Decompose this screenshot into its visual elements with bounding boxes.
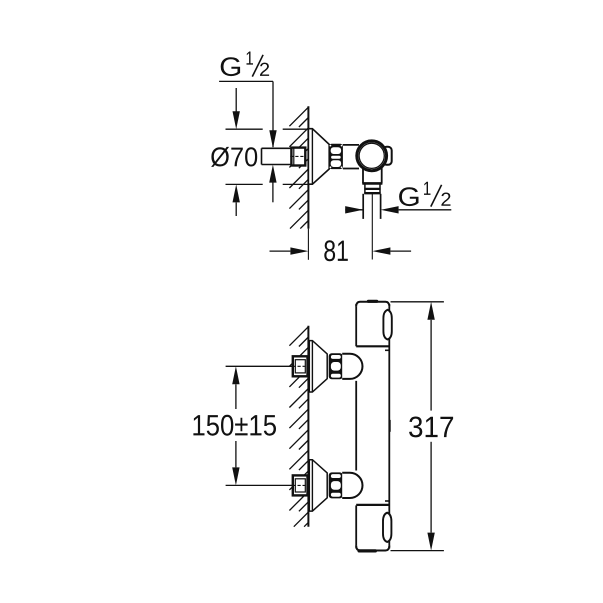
round housing circle	[357, 141, 387, 171]
317 bottom extension line	[391, 550, 444, 552]
connector body to round housing	[343, 145, 359, 169]
wall hatching (upper drawing)	[289, 107, 308, 228]
150 dim line upper part	[235, 384, 237, 409]
top cap bottom line	[356, 345, 389, 347]
upper union: square nut	[293, 356, 308, 376]
top cap of thermostat	[356, 302, 389, 307]
top temperature knob (side view ellipse)	[383, 310, 391, 340]
arrow to nipple bottom	[269, 165, 276, 183]
Ø70 arrow up	[233, 184, 240, 202]
wall face extension for 81	[307, 229, 309, 260]
bottom cap top line	[356, 504, 389, 506]
upper union: boss into body	[342, 354, 362, 379]
leader drop to nipple	[272, 81, 274, 147]
shower hose	[362, 194, 364, 219]
outlet neck below housing	[363, 158, 382, 183]
leader underline G1/2 top	[219, 80, 273, 82]
hose dim left shaft	[345, 209, 363, 211]
Ø70 top extension line	[226, 128, 263, 130]
lower union: boss into body	[342, 473, 362, 498]
bottom knob (side view ellipse)	[383, 513, 391, 542]
Ø70 arrow down	[233, 111, 240, 129]
label Ø70	[211, 147, 257, 167]
317 dim line lower part	[430, 442, 432, 533]
label 81	[324, 240, 348, 261]
upper union: escutcheon	[309, 341, 327, 392]
lower union hidden centerline	[293, 484, 307, 486]
step tick above bottom cap	[385, 500, 389, 502]
tail below nipple	[272, 182, 274, 202]
hose coupling rings	[364, 183, 366, 193]
317 top extension line	[391, 301, 444, 303]
wall face line (lower)	[307, 326, 309, 527]
81 dim right shaft	[390, 250, 411, 252]
body right edge	[388, 304, 390, 549]
threaded nipple pipe	[262, 148, 292, 164]
hose centerline	[371, 194, 373, 260]
square nut on nipple	[291, 148, 305, 166]
lower union: escutcheon	[309, 460, 327, 511]
escutcheon rosette (upper)	[308, 129, 329, 185]
wall hatching (lower drawing)	[289, 327, 308, 527]
side cap on round housing	[383, 147, 392, 165]
81 dim left shaft	[270, 250, 291, 252]
Ø70 lower arrow shaft	[235, 202, 237, 216]
arrow to nipple top	[269, 130, 276, 148]
label G 1/2 (wall thread, top)	[221, 57, 240, 76]
150 dim bottom extension line	[226, 484, 293, 486]
label 150±15	[193, 415, 276, 436]
lower union: square nut	[293, 475, 308, 495]
lower union: hex nut	[329, 472, 343, 498]
mid seam mark on right edge	[389, 420, 391, 432]
label 317	[409, 417, 453, 438]
Ø70 bottom extension line	[226, 183, 263, 185]
wall face line (upper)	[307, 106, 309, 228]
150 dim top extension line	[226, 365, 293, 367]
label G 1/2 (hose thread)	[399, 187, 418, 206]
hidden thread centerline (dashed)	[290, 155, 306, 157]
150 dim line lower part	[235, 441, 237, 467]
hose dim right shaft	[399, 209, 452, 211]
step tick below top cap	[385, 349, 389, 351]
upper union hidden centerline	[293, 365, 307, 367]
hex nut (upper fitting)	[329, 144, 344, 169]
317 dim line upper part	[430, 320, 432, 411]
Ø70 upper arrow shaft	[235, 88, 237, 112]
upper union: hex nut	[329, 353, 343, 379]
thermostat body tube	[356, 301, 389, 551]
